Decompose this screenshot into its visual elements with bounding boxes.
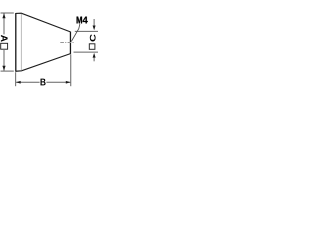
dim B right extension line (70, 54, 72, 86)
dim A line upper segment (3, 14, 5, 35)
dim B right arrow (66, 81, 71, 84)
dim C up arrow (93, 53, 96, 58)
dim B line right segment (46, 81, 70, 83)
dim C lower line (93, 57, 95, 61)
centerline of M4 hole (60, 42, 74, 44)
dim C down arrow (93, 26, 96, 31)
dim C top extension line (75, 30, 98, 32)
label M4 glyph M (77, 17, 82, 24)
label A tofu box (1, 43, 8, 49)
dim A bottom extension line (1, 70, 14, 72)
dim A down arrow (2, 66, 5, 71)
dim A line lower segment (3, 50, 5, 71)
label A glyph (1, 35, 8, 42)
cone right face (69, 32, 71, 54)
dim B left extension line (15, 72, 17, 86)
cone top edge (16, 13, 71, 32)
cone bottom edge (16, 54, 71, 72)
label C tofu box (89, 44, 95, 50)
dim C upper line (93, 19, 95, 26)
dim C bottom extension line (74, 51, 99, 53)
label B glyph (41, 79, 46, 86)
label M4 glyph 4 (83, 17, 88, 24)
label C glyph (90, 34, 96, 41)
dim A up arrow (2, 13, 5, 18)
dim B left arrow (16, 81, 21, 84)
tangent edge line (20, 14, 22, 70)
cone left face (15, 13, 17, 72)
dim B line left segment (16, 81, 39, 83)
dim A top extension line (1, 12, 14, 14)
M4 leader line (71, 24, 80, 42)
